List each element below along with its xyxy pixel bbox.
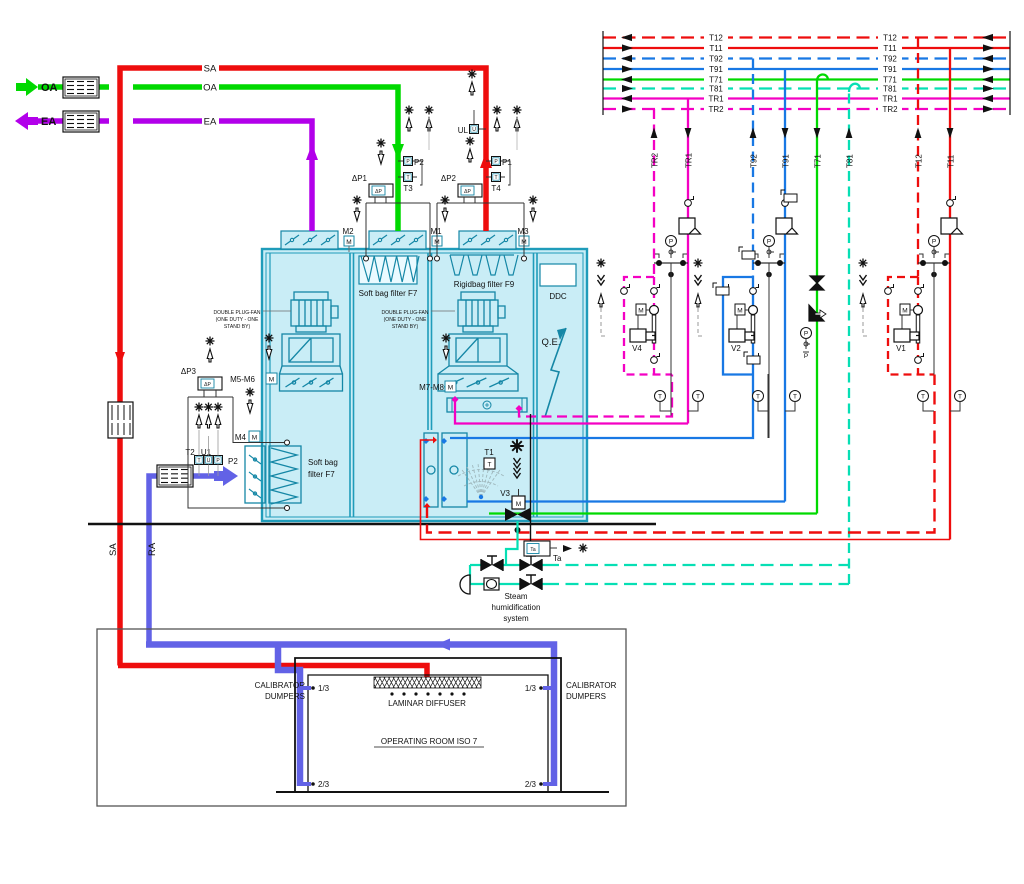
svg-text:ΔP2: ΔP2 [441,174,457,183]
svg-text:M: M [902,308,907,315]
svg-text:T81: T81 [883,85,897,94]
svg-text:TR2: TR2 [708,105,724,114]
svg-text:T3: T3 [403,184,413,193]
svg-text:T12: T12 [709,34,723,43]
svg-text:humidification: humidification [492,603,541,612]
svg-text:P1: P1 [502,158,512,167]
svg-text:DUMPERS: DUMPERS [265,692,305,701]
svg-text:TR2: TR2 [651,152,660,168]
svg-text:T91: T91 [709,65,723,74]
svg-text:V3: V3 [500,489,510,498]
svg-text:STAND BY): STAND BY) [224,324,251,330]
svg-text:STAND BY): STAND BY) [392,324,419,330]
svg-text:P: P [804,353,808,360]
svg-text:OA: OA [41,82,58,94]
svg-text:SA: SA [204,64,217,75]
svg-text:ΔP: ΔP [375,189,382,195]
svg-text:T71: T71 [709,76,723,85]
svg-text:DUMPERS: DUMPERS [566,692,606,701]
svg-text:M: M [269,377,274,384]
svg-text:T12: T12 [883,34,897,43]
svg-text:T81: T81 [709,85,723,94]
svg-text:M7-M8: M7-M8 [419,383,444,392]
svg-text:M1: M1 [430,227,442,236]
svg-text:TR1: TR1 [708,95,724,104]
svg-text:T11: T11 [883,44,897,53]
svg-text:V1: V1 [896,344,906,353]
svg-text:T12: T12 [915,154,924,168]
svg-text:T92: T92 [709,55,723,64]
svg-text:(ONE DUTY - ONE: (ONE DUTY - ONE [384,317,427,323]
svg-text:ΔP3: ΔP3 [181,367,197,376]
svg-text:filter F7: filter F7 [308,470,335,479]
svg-text:Rigidbag filter F9: Rigidbag filter F9 [454,280,515,289]
svg-text:TR1: TR1 [882,95,898,104]
svg-text:Soft bag filter F7: Soft bag filter F7 [359,289,418,298]
svg-text:T: T [406,175,409,181]
svg-text:TR2: TR2 [882,105,898,114]
svg-text:M3: M3 [517,227,529,236]
svg-text:TR1: TR1 [685,152,694,168]
svg-text:1/3: 1/3 [525,684,537,693]
svg-text:system: system [503,614,529,623]
svg-text:M5-M6: M5-M6 [230,375,255,384]
svg-text:EA: EA [204,117,217,128]
svg-text:LAMINAR DIFFUSER: LAMINAR DIFFUSER [388,699,466,708]
svg-text:2/3: 2/3 [318,780,330,789]
svg-text:M2: M2 [342,227,354,236]
svg-text:CALIBRATOR: CALIBRATOR [255,681,306,690]
svg-text:U1: U1 [201,448,212,457]
svg-text:U: U [207,458,211,464]
svg-text:UL: UL [458,126,469,135]
svg-text:ΔP1: ΔP1 [352,174,368,183]
svg-text:T91: T91 [883,65,897,74]
svg-text:M: M [252,435,257,442]
svg-text:DOUBLE PLUG-FAN: DOUBLE PLUG-FAN [214,310,261,316]
svg-text:M: M [346,239,351,246]
svg-text:T91: T91 [782,154,791,168]
svg-text:T71: T71 [883,76,897,85]
svg-text:DDC: DDC [549,292,567,301]
svg-text:Steam: Steam [504,592,527,601]
svg-text:U: U [472,127,476,133]
svg-text:ΔP: ΔP [464,189,471,195]
svg-text:P2: P2 [228,457,238,466]
svg-text:OA: OA [203,83,217,94]
svg-text:ΔP: ΔP [204,382,211,388]
svg-text:T: T [494,175,497,181]
svg-text:M: M [638,308,643,315]
svg-text:M: M [737,308,742,315]
svg-text:T: T [197,458,200,464]
svg-text:M4: M4 [235,433,247,442]
svg-text:(ONE DUTY - ONE: (ONE DUTY - ONE [216,317,259,323]
svg-text:T1: T1 [484,448,494,457]
svg-text:SA: SA [108,543,119,556]
svg-text:Ta: Ta [530,547,536,553]
svg-text:RA: RA [147,542,158,556]
svg-text:CALIBRATOR: CALIBRATOR [566,681,617,690]
svg-text:DOUBLE PLUG-FAN: DOUBLE PLUG-FAN [382,310,429,316]
svg-text:V2: V2 [731,344,741,353]
svg-text:1/3: 1/3 [318,684,330,693]
svg-text:T4: T4 [491,184,501,193]
svg-text:2/3: 2/3 [525,780,537,789]
svg-text:V4: V4 [632,344,642,353]
svg-text:P2: P2 [414,158,424,167]
svg-text:T2: T2 [185,448,195,457]
svg-text:Ta: Ta [553,554,562,563]
svg-text:T11: T11 [947,154,956,168]
svg-text:Soft bag: Soft bag [308,458,338,467]
svg-text:T71: T71 [814,154,823,168]
svg-text:M: M [516,501,521,508]
svg-text:M: M [448,385,453,392]
svg-text:T92: T92 [883,55,897,64]
svg-text:T: T [488,462,492,469]
svg-text:T81: T81 [846,154,855,168]
svg-text:T92: T92 [750,154,759,168]
svg-text:OPERATING ROOM ISO 7: OPERATING ROOM ISO 7 [381,737,478,746]
svg-text:Q.E.: Q.E. [541,337,560,348]
svg-text:T11: T11 [709,44,723,53]
svg-text:EA: EA [41,116,56,128]
